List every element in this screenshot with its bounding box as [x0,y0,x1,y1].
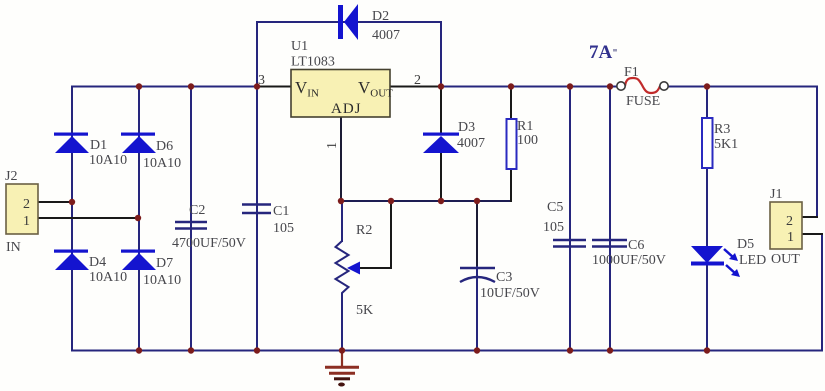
IC U1 box [291,70,390,118]
wire D3 top stub [440,87,442,134]
svg-text:10A10: 10A10 [89,270,127,285]
svg-text:1: 1 [325,142,340,149]
resistor R3 [702,118,713,168]
svg-text:D4: D4 [89,255,106,270]
svg-text:10A10: 10A10 [143,156,181,171]
wire R1 top stub [510,87,512,120]
wire VOUT rail left of fuse [441,86,617,88]
wire R2 wiper riser [390,201,392,268]
node VOUT R1 [508,83,514,89]
wire bottom bus [72,350,822,352]
node bus ground [339,347,345,353]
svg-text:J1: J1 [770,187,782,202]
node top rail C2 [188,83,194,89]
svg-text:U1: U1 [291,39,308,54]
resistor R1 [507,119,517,169]
potentiometer R2 wiper arrow [347,262,360,275]
wire J1 pin1 stub [802,233,822,235]
wire D2 top branch [257,22,441,87]
diode D2 [338,4,358,40]
svg-text:2: 2 [414,73,421,88]
svg-text:IN: IN [6,240,21,255]
wire C5 branch [569,87,571,351]
LED D5 [691,246,740,277]
svg-text:10A10: 10A10 [143,273,181,288]
wire J2 pin2 stub [38,201,72,203]
wire R2 wiper horizontal [357,267,391,269]
svg-text:D6: D6 [156,139,173,154]
wire D6/D7 branch [138,87,140,351]
svg-text:R1: R1 [517,119,533,134]
wire R1 bottom stub [510,169,512,201]
wire J2 pin1 stub [38,217,139,219]
svg-text:C2: C2 [189,203,205,218]
diode D3 [423,133,459,154]
svg-text:105: 105 [273,221,294,236]
svg-text:1000UF/50V: 1000UF/50V [592,253,666,268]
capacitor C2 [175,222,207,229]
node top rail C1/D2 [254,83,260,89]
wire top-left rail [72,86,257,88]
svg-text:R3: R3 [714,122,730,137]
capacitor C1 [242,205,271,214]
svg-text:C6: C6 [628,238,644,253]
svg-text:J2: J2 [5,169,17,184]
svg-text:4007: 4007 [372,28,400,43]
svg-text:LED: LED [739,253,766,268]
node VOUT R3 [704,83,710,89]
node bus C5 [567,347,573,353]
wire D3 bottom stub [440,153,442,201]
node bus C1 [254,347,260,353]
svg-text:R2: R2 [356,223,372,238]
node J2 pin2 [69,199,75,205]
capacitor C5 [553,240,586,247]
wire U1 ADJ pin1 [340,117,342,201]
svg-text:C3: C3 [496,270,512,285]
ground [325,351,359,387]
diode D4 [54,250,89,271]
svg-text:OUT: OUT [771,252,800,267]
node J2 pin1 [135,215,141,221]
wire U1 pin2 stub [390,86,441,88]
svg-text:2: 2 [23,197,30,212]
svg-text:105: 105 [543,220,564,235]
connector J2 box [6,184,38,234]
svg-text:100: 100 [517,133,538,148]
node bus C2 [188,347,194,353]
wire R2 branch vertical [341,201,343,351]
wire C6 branch [609,87,611,351]
node bus D7 [136,347,142,353]
svg-text:1: 1 [787,230,794,245]
node bus C3 [474,347,480,353]
svg-text:ADJ: ADJ [331,101,362,117]
svg-text:F1: F1 [624,65,639,80]
svg-text:FUSE: FUSE [626,94,660,109]
node bus C6 [607,347,613,353]
svg-text:1: 1 [23,214,30,229]
node top rail D6 [136,83,142,89]
capacitor C3 polarized [460,268,495,282]
svg-text:4007: 4007 [457,136,485,151]
svg-text:C5: C5 [547,200,563,215]
node D3 bottom [438,198,444,204]
wire U1 pin3 stub [257,86,290,88]
wire ADJ rail y201 [340,200,511,202]
connector J1 box [770,202,802,249]
node VOUT D2/D3 [438,83,444,89]
node wiper riser [388,198,394,204]
wire C2 branch [190,87,192,351]
node VOUT C5 [567,83,573,89]
svg-text:D7: D7 [156,256,173,271]
svg-text:2: 2 [786,214,793,229]
svg-text:4700UF/50V: 4700UF/50V [172,236,246,251]
svg-text:D1: D1 [90,138,107,153]
7A tick mark [613,49,617,52]
node ADJ/R2 [338,198,344,204]
wire C1 / D2 branch vertical [256,22,258,351]
wire C3 branch [476,201,478,267]
svg-text:C1: C1 [273,204,289,219]
wire R3/D5 branch [706,87,708,351]
diode D6 [121,133,156,154]
potentiometer R2 zigzag [336,241,349,297]
capacitor C6 [592,240,627,247]
node C3 top [474,198,480,204]
svg-text:D3: D3 [458,120,475,135]
wire J1 pin2 stub [802,216,817,218]
diode D1 [54,133,89,154]
svg-text:D2: D2 [372,9,389,24]
fuse F1 [617,78,668,93]
wire left vertical D1/D4 branch [71,87,73,351]
svg-text:D5: D5 [737,237,754,252]
node bus D5 [704,347,710,353]
wire VOUT rail right of fuse [668,87,817,218]
svg-text:LT1083: LT1083 [291,55,335,70]
svg-text:5K1: 5K1 [714,137,738,152]
svg-text:10A10: 10A10 [89,153,127,168]
node VOUT C6 [607,83,613,89]
diode D7 [121,250,156,271]
svg-text:10UF/50V: 10UF/50V [480,286,540,301]
wire J1 pin1 riser [821,234,823,351]
svg-text:7A: 7A [589,42,613,63]
svg-text:5K: 5K [356,303,373,318]
